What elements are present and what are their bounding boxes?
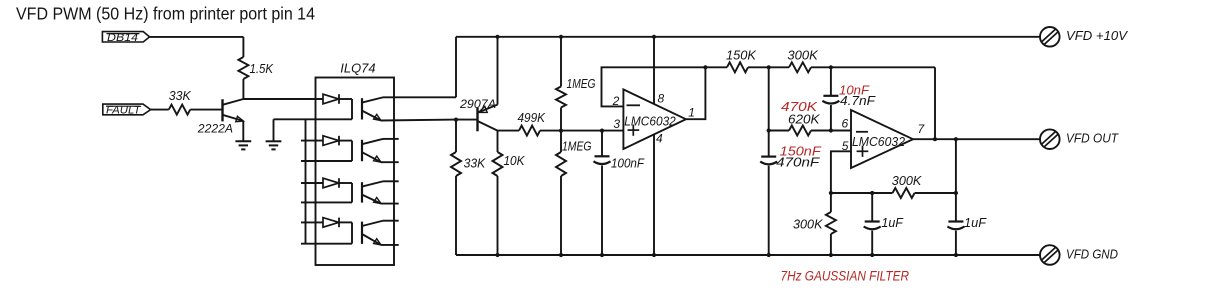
node junction [652,35,656,39]
node junction [703,65,707,69]
node junction [495,35,499,39]
opto LED channel 4 [323,218,339,228]
wire [242,121,244,141]
svg-text:1MEG: 1MEG [562,140,592,154]
svg-text:2907A: 2907A [459,97,496,111]
node junction [559,129,563,133]
transistor Q1 2222A [221,99,223,121]
terminal VFD +10V [1040,27,1060,47]
node junction [954,137,958,141]
opto phototransistor channel 4 [361,222,363,244]
wire [151,109,169,111]
resistor 1MEG upper [560,37,562,87]
svg-text:VFD GND: VFD GND [1066,246,1118,261]
node junction [933,137,937,141]
node junction [829,253,833,257]
resistor 33K pulldown [455,120,457,152]
node junction [600,129,604,133]
wire bus [305,119,307,243]
wire [915,192,956,194]
node junction [767,65,771,69]
svg-text:499K: 499K [518,111,546,125]
op-amp U1A LMC6032 [623,89,686,149]
ground [273,119,275,141]
wire pin 4 [653,135,655,255]
wire [301,140,323,142]
svg-text:4.7nF: 4.7nF [840,94,876,108]
svg-text:470nF: 470nF [776,156,821,170]
svg-text:300K: 300K [793,218,823,232]
resistor 10K [497,131,499,152]
svg-text:3: 3 [613,117,620,131]
node junction [954,191,958,195]
wire [301,221,323,223]
net tag DB14 [102,32,149,42]
wire [150,36,244,38]
opto LED channel 1 [323,94,339,104]
svg-text:100nF: 100nF [611,156,645,170]
wire [455,37,457,98]
wire [190,109,222,111]
opto phototransistor channel 3 [361,182,363,202]
opto LED channel 3 [323,178,339,188]
wire [540,130,623,132]
op-amp U1B LMC6032 [851,110,913,168]
net tag FAULT [103,104,151,115]
svg-text:300K: 300K [892,174,922,188]
resistor 1.5K [242,37,244,57]
opto phototransistor channel 2 [361,140,363,161]
resistor 1MEG lower [556,152,566,176]
wire [301,243,352,245]
opto phototransistor channel 1 [361,98,363,119]
wire pin 5 [831,151,851,193]
resistor 33K [169,105,190,115]
wire [301,201,352,203]
svg-text:LMC6032: LMC6032 [624,114,676,129]
node junction [652,253,656,257]
svg-text:1: 1 [688,105,695,119]
wire [301,160,352,162]
wire pin 8 [653,37,655,104]
wire [301,182,323,184]
svg-text:LMC6032: LMC6032 [852,134,905,149]
ground [235,140,251,142]
svg-text:33K: 33K [464,156,486,170]
node junction [600,253,604,257]
node junction [829,128,833,132]
svg-text:VFD +10V: VFD +10V [1066,28,1128,43]
node junction [870,191,874,195]
opto-isolator U1 ILQ74 box [316,78,395,266]
svg-text:7Hz GAUSSIAN FILTER: 7Hz GAUSSIAN FILTER [781,268,910,283]
svg-text:10K: 10K [504,154,526,168]
svg-text:4: 4 [656,131,663,145]
wire node V1 [768,67,770,156]
resistor 150K [705,66,727,68]
svg-text:ILQ74: ILQ74 [340,62,375,76]
svg-text:300K: 300K [787,48,818,62]
node junction [829,65,833,69]
wire [243,98,323,100]
opto LED channel 2 [323,136,339,146]
wire VFD OUT line [913,138,1040,140]
svg-text:8: 8 [658,92,665,106]
node junction [767,128,771,132]
node junction [870,253,874,257]
transistor Q3 2907A [497,37,499,105]
node junction [454,118,458,122]
resistor 300K fb2 [893,188,915,198]
capacitor 100nF [601,131,603,157]
wire +10V top rail [456,36,1040,38]
svg-text:1.5K: 1.5K [250,62,274,76]
svg-text:1uF: 1uF [881,216,904,230]
node junction [954,253,958,257]
capacitor 1uF a [871,193,873,222]
svg-text:VFD PWM (50 Hz) from printer p: VFD PWM (50 Hz) from printer port pin 14 [16,4,315,24]
capacitor 1uF b [955,139,957,221]
svg-text:2222A: 2222A [197,122,233,136]
wire feedback U1A [686,67,706,119]
svg-text:150K: 150K [726,48,757,62]
node junction [767,253,771,257]
svg-text:33K: 33K [169,89,192,103]
resistor 300K feedback [769,66,789,68]
svg-text:6: 6 [842,117,849,131]
svg-text:620K: 620K [788,113,820,127]
wire [934,67,936,139]
node junction [559,35,563,39]
capacitor 4.7nF [830,67,832,96]
wire ground bottom rail [456,254,1040,256]
svg-text:VFD OUT: VFD OUT [1066,131,1119,146]
wire [274,118,317,120]
terminal VFD OUT [1040,129,1060,149]
svg-text:1MEG: 1MEG [567,77,596,91]
terminal VFD GND [1040,245,1060,265]
resistor 620K [769,130,789,132]
resistor 499K [519,126,540,136]
capacitor 470nF [761,156,776,158]
resistor 300K to gnd [830,193,832,212]
wire [831,192,893,194]
node junction [829,191,833,195]
wire [317,118,353,120]
svg-text:1uF: 1uF [964,216,987,230]
wire [498,130,520,132]
node junction [559,253,563,257]
node junction [495,253,499,257]
